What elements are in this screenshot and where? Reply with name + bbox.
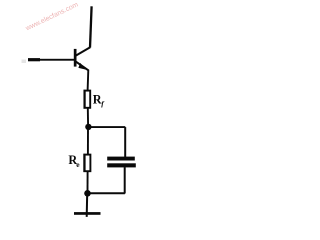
svg-text:f: f [101,99,105,108]
svg-text:e: e [76,160,80,169]
svg-text:www.elecfans.com: www.elecfans.com [24,1,80,32]
